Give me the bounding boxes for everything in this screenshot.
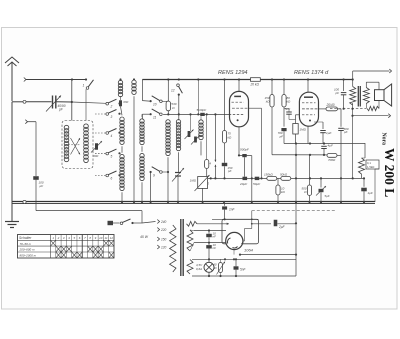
svg-text:0,6A: 0,6A — [196, 267, 202, 271]
svg-text:70–50 m: 70–50 m — [20, 242, 32, 246]
trimmer wire — [190, 114, 192, 131]
bottom rail — [234, 250, 296, 256]
svg-text:45 W: 45 W — [140, 235, 149, 239]
terminal A1 — [24, 78, 26, 82]
mid bus y155 — [239, 154, 328, 156]
coupling arrows — [68, 138, 80, 155]
wire cath2 — [307, 126, 309, 143]
mains plug — [108, 221, 120, 225]
power transformer core — [181, 219, 183, 276]
label W 200 L — [382, 148, 397, 197]
trimmer C5 — [185, 130, 194, 140]
mains switch — [120, 211, 142, 225]
switch S2 — [106, 99, 121, 108]
label RENS 1374d — [294, 70, 329, 76]
svg-text:W 200 L: W 200 L — [382, 148, 397, 197]
wire x296 — [295, 143, 297, 256]
mains tap wire — [142, 222, 156, 224]
trimmer C3 — [119, 96, 128, 106]
resistor 10k — [276, 178, 286, 203]
rectifier tube 1064 — [226, 232, 254, 252]
wire grid col — [197, 78, 199, 114]
svg-text:Schalter: Schalter — [19, 236, 32, 240]
coil L3a — [118, 78, 122, 96]
output transformer core — [358, 86, 360, 107]
capacitor 10nF a — [206, 229, 216, 243]
svg-text:nF: nF — [213, 235, 217, 239]
svg-text:220: 220 — [160, 228, 167, 232]
svg-text:nF: nF — [213, 246, 217, 250]
coil L7 — [199, 116, 203, 155]
tuning capacitor CV1 — [172, 168, 184, 203]
resistor 80k — [282, 80, 291, 127]
svg-text:2: 2 — [110, 104, 113, 108]
ht winding — [187, 221, 198, 226]
tone capacitor — [316, 178, 330, 203]
switch S12 — [171, 78, 182, 120]
svg-text:2: 2 — [57, 236, 60, 240]
svg-text:11: 11 — [153, 116, 157, 120]
b plus line — [212, 211, 335, 221]
svg-text:200–600 m: 200–600 m — [19, 248, 36, 252]
coil L5a — [140, 114, 144, 145]
svg-text:11: 11 — [105, 236, 108, 240]
switch S11 — [142, 109, 162, 120]
coil L2 — [84, 89, 89, 162]
svg-text:pF: pF — [334, 91, 339, 95]
switch bank S3-S6 — [95, 110, 121, 181]
heater line top — [192, 255, 296, 276]
wire field bottom — [361, 174, 363, 178]
svg-text:RENS 1294: RENS 1294 — [218, 70, 248, 76]
capacitor 5/10pF — [197, 108, 208, 116]
power transformer primary — [170, 225, 176, 272]
wire avc join — [277, 177, 281, 179]
hum resistor — [366, 101, 379, 111]
svg-text:pF: pF — [279, 134, 284, 138]
avc line — [208, 177, 267, 179]
antenna — [5, 57, 19, 101]
switch table — [18, 235, 115, 259]
heater winding — [187, 260, 193, 275]
wire box right — [375, 169, 379, 202]
svg-text:4: 4 — [111, 134, 113, 138]
svg-text:1: 1 — [83, 84, 85, 88]
capacitor 2uF — [274, 220, 296, 229]
resistor 50k avc — [280, 173, 291, 181]
anode wires — [190, 230, 226, 251]
pilot lamp — [196, 259, 214, 276]
svg-text:20 kΩ: 20 kΩ — [250, 83, 260, 87]
dash line field — [330, 108, 366, 110]
tube U2 — [299, 80, 318, 127]
svg-text:240: 240 — [160, 220, 167, 224]
tap 120 — [157, 245, 166, 250]
trimmer C2 — [91, 141, 102, 158]
wire x252 — [251, 156, 253, 203]
tap 240 — [157, 220, 166, 225]
capacitor 5nF b — [234, 258, 247, 276]
capacitor 100pF b — [334, 80, 346, 110]
svg-text:5µF: 5µF — [325, 194, 330, 198]
capacitor 4uF — [321, 143, 334, 155]
wire 530 column — [167, 78, 169, 101]
svg-text:20/40: 20/40 — [326, 103, 335, 107]
capacitor 700pF — [278, 128, 287, 144]
svg-text:1064: 1064 — [244, 248, 254, 253]
svg-text:10: 10 — [153, 103, 157, 107]
svg-text:2µF: 2µF — [278, 225, 286, 229]
svg-text:1MΩ: 1MΩ — [300, 128, 307, 132]
capacitor 5nF a — [284, 107, 296, 119]
svg-text:500pF: 500pF — [240, 147, 250, 151]
svg-text:12: 12 — [171, 89, 175, 93]
wire antenna ground — [11, 102, 13, 221]
svg-text:1,5kΩ: 1,5kΩ — [367, 165, 374, 169]
output transformer secondary — [363, 82, 379, 103]
svg-text:330: 330 — [123, 100, 128, 104]
resistor 150k avc — [264, 173, 277, 181]
resistor 700 — [327, 154, 341, 163]
ht cap wire — [252, 223, 271, 225]
rectifier anode wires — [243, 211, 253, 241]
top bus — [142, 78, 352, 80]
earth terminal — [23, 200, 26, 203]
speaker — [375, 84, 392, 106]
electrolytic 50uF — [253, 177, 261, 186]
resistor 150k — [264, 80, 274, 155]
tap 220 — [157, 228, 166, 233]
wire node down — [57, 80, 107, 121]
svg-text:150: 150 — [161, 238, 167, 242]
wire grid2 — [296, 115, 300, 124]
chassis line — [36, 210, 142, 212]
capacitor 1nF — [222, 204, 235, 220]
capacitor 100 left — [33, 176, 44, 211]
wire x261 — [249, 108, 263, 179]
label RENS 1294 — [218, 70, 248, 76]
wire field top — [364, 143, 366, 158]
svg-text:120: 120 — [161, 246, 167, 250]
ground — [5, 222, 19, 228]
grid line — [163, 113, 230, 115]
capacitor 10nF b — [206, 243, 216, 261]
rectifier box — [222, 219, 259, 244]
svg-text:9: 9 — [153, 174, 155, 178]
svg-text:50kΩ: 50kΩ — [280, 173, 288, 177]
svg-text:1µF: 1µF — [368, 191, 373, 195]
resistor 530 — [166, 101, 177, 115]
electrolytic 20uF — [239, 177, 248, 186]
wire A1 bus — [26, 78, 87, 80]
svg-text:10: 10 — [99, 236, 103, 240]
svg-text:150kΩ: 150kΩ — [264, 173, 274, 177]
grid resistor 1M — [293, 124, 307, 144]
speaker second lead — [351, 103, 390, 178]
capacitor 500pF a — [240, 147, 250, 176]
trimmer C6 — [191, 135, 200, 145]
terminal A2 — [23, 100, 26, 103]
wire cath1 — [238, 127, 240, 157]
coil L3c — [120, 146, 124, 203]
bus y143 — [284, 142, 365, 144]
label 45W — [140, 235, 149, 239]
svg-text:RENS 1374 d: RENS 1374 d — [294, 70, 329, 76]
coil L3b — [120, 106, 124, 144]
resistor 20k — [250, 78, 261, 87]
svg-text:µF: µF — [40, 184, 44, 188]
svg-text:5: 5 — [111, 154, 113, 158]
ht arrow line — [197, 223, 229, 225]
trimmer capacitor 40/90pF — [46, 96, 66, 112]
ground bus — [12, 202, 375, 204]
switch S9 — [150, 167, 170, 203]
svg-text:6: 6 — [111, 176, 113, 180]
resistor 400 — [204, 114, 209, 189]
wire avc right — [291, 177, 364, 179]
svg-text:20µF: 20µF — [239, 182, 248, 186]
svg-text:50µF: 50µF — [253, 182, 261, 186]
bus dots — [223, 201, 297, 203]
resistor 40ohm — [213, 259, 225, 276]
svg-text:3: 3 — [111, 115, 113, 119]
wire antenna to trimmer — [12, 101, 52, 103]
capacitor 1uF — [314, 122, 333, 144]
coil L1 — [64, 125, 69, 161]
label Nora — [380, 133, 386, 146]
resistor 500ohm — [301, 155, 311, 203]
coil L6b — [176, 120, 180, 173]
svg-text:700Ω: 700Ω — [328, 158, 336, 162]
coil L4 — [132, 78, 136, 203]
tap 150 — [157, 237, 166, 242]
svg-text:Nora: Nora — [380, 133, 386, 146]
capacitor 150pF black — [222, 143, 233, 179]
coil L6a — [166, 114, 170, 203]
svg-text:300: 300 — [93, 154, 98, 158]
svg-text:800–2000 m: 800–2000 m — [20, 254, 37, 258]
capacitor 1uF field — [361, 177, 373, 203]
coil L5b — [140, 146, 144, 203]
anode winding — [187, 230, 193, 251]
speaker top lead — [352, 69, 392, 81]
volume box — [190, 175, 210, 203]
anode resistor 20/40 — [319, 103, 342, 111]
switch S1 — [83, 80, 94, 121]
output transformer primary — [350, 80, 356, 106]
svg-text:1MΩ: 1MΩ — [190, 179, 197, 183]
heater line bottom — [192, 275, 296, 277]
svg-text:pF: pF — [227, 169, 232, 173]
tube U1 — [229, 80, 249, 128]
capacitor 500pF b — [338, 109, 349, 203]
coil box dashed — [62, 121, 93, 169]
switch S10 — [142, 80, 169, 107]
field resistor — [359, 158, 380, 174]
resistor 75k — [222, 80, 232, 144]
arrester — [207, 114, 217, 179]
svg-text:pF: pF — [343, 130, 348, 134]
terminal A3 — [25, 120, 36, 176]
svg-text:12: 12 — [110, 236, 114, 240]
